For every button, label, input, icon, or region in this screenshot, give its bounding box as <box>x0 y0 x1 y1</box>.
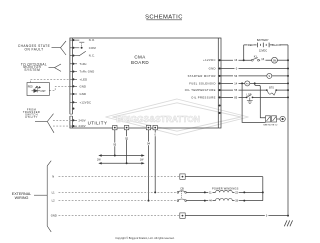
svg-text:UTILITY: UTILITY <box>25 115 38 119</box>
svg-text:UNIT: UNIT <box>40 91 46 93</box>
svg-text:COM: COM <box>89 46 97 50</box>
svg-text:SYSTEM: SYSTEM <box>24 68 40 72</box>
svg-text:Copyright © Briggs & Stratton,: Copyright © Briggs & Stratton, LLC. All … <box>115 237 175 240</box>
svg-text:GND: GND <box>80 84 87 88</box>
svg-text:CB: CB <box>180 186 184 190</box>
svg-text:BOARD: BOARD <box>131 60 149 65</box>
svg-text:2W: 2W <box>97 159 101 162</box>
svg-text:+12VDC: +12VDC <box>80 100 92 104</box>
svg-text:BRIGGS&STRATTON: BRIGGS&STRATTON <box>116 114 200 124</box>
svg-text:240V: 240V <box>79 124 86 128</box>
svg-text:FUEL SOLENOID: FUEL SOLENOID <box>189 81 216 85</box>
svg-text:240V: 240V <box>79 118 86 122</box>
svg-text:GND: GND <box>80 92 87 96</box>
svg-text:TxRx: TxRx <box>80 62 88 66</box>
svg-text:+12VDC: +12VDC <box>203 58 216 62</box>
svg-text:TxRx GND: TxRx GND <box>80 70 95 74</box>
svg-text:RED: RED <box>28 87 33 89</box>
svg-text:POWER WINDINGS: POWER WINDINGS <box>212 186 239 190</box>
svg-text:12VDC: 12VDC <box>259 49 267 53</box>
svg-text:1W: 1W <box>140 159 144 162</box>
svg-text:GND: GND <box>209 67 216 71</box>
svg-text:SM: SM <box>273 59 277 62</box>
svg-text:BATTERY: BATTERY <box>257 38 269 42</box>
svg-text:ON FAULT: ON FAULT <box>25 47 44 51</box>
svg-text:BTS: BTS <box>269 86 274 89</box>
svg-text:GND: GND <box>51 214 57 218</box>
svg-text:RED: RED <box>248 43 254 47</box>
svg-text:UTILITY: UTILITY <box>88 121 108 126</box>
svg-text:N: N <box>52 175 54 179</box>
svg-text:WIRING: WIRING <box>15 196 29 200</box>
svg-text:STARTER MOTOR: STARTER MOTOR <box>188 74 216 78</box>
svg-text:N.O.: N.O. <box>89 38 96 42</box>
svg-text:+LED: +LED <box>80 77 88 81</box>
svg-text:SEE NOTE #2: SEE NOTE #2 <box>263 125 278 127</box>
svg-text:N.C.: N.C. <box>89 54 95 58</box>
svg-text:CMA: CMA <box>134 55 145 60</box>
svg-text:BLACK: BLACK <box>272 43 281 47</box>
svg-text:OIL PRESSURE: OIL PRESSURE <box>191 95 216 99</box>
svg-text:OIL TEMPERATURE: OIL TEMPERATURE <box>185 88 216 92</box>
svg-text:LOP: LOP <box>247 94 252 97</box>
svg-text:L2: L2 <box>52 199 55 203</box>
svg-text:L1: L1 <box>52 191 55 195</box>
